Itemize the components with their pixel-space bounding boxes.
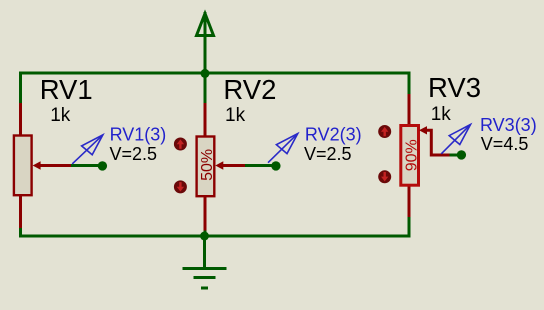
- svg-text:RV2: RV2: [223, 74, 276, 105]
- ground: [183, 236, 227, 288]
- svg-text:RV2(3): RV2(3): [305, 125, 362, 145]
- svg-text:50%: 50%: [199, 149, 216, 181]
- svg-text:V=2.5: V=2.5: [304, 144, 352, 164]
- svg-text:RV3(3): RV3(3): [480, 115, 537, 135]
- node RV2 wiper dot: [271, 161, 280, 170]
- wire RV1 wiper: [71, 164, 102, 167]
- node junction bottom: [200, 232, 209, 241]
- wire left vertical top: [19, 72, 22, 105]
- svg-text:V=4.5: V=4.5: [481, 134, 529, 154]
- potentiometer RV3 (selected): [401, 94, 451, 217]
- svg-text:90%: 90%: [404, 139, 421, 171]
- potentiometer RV1: [14, 103, 73, 228]
- probe RV2(3): [268, 134, 298, 163]
- svg-text:1k: 1k: [225, 105, 246, 126]
- node junction top: [201, 69, 210, 78]
- probe RV3(3): [441, 125, 470, 154]
- button RV2 up: [174, 138, 187, 151]
- wire right vertical bottom: [408, 216, 411, 238]
- power symbol VCC: [197, 12, 214, 36]
- wire mid vertical bottom: [204, 230, 207, 238]
- svg-text:RV1(3): RV1(3): [110, 125, 167, 145]
- button RV3 down: [378, 170, 391, 183]
- wire RV3 wiper: [450, 154, 462, 157]
- svg-text:1k: 1k: [431, 104, 452, 125]
- node RV3 wiper dot: [457, 150, 466, 159]
- wire right vertical top: [408, 72, 411, 96]
- node RV1 wiper dot: [98, 161, 107, 170]
- probe RV1(3): [72, 135, 103, 164]
- wire bottom rail: [19, 235, 411, 238]
- wire top rail: [19, 72, 411, 75]
- wire left vertical bottom: [19, 227, 22, 238]
- button RV2 down: [174, 180, 187, 193]
- wire mid vertical top: [204, 36, 207, 105]
- svg-text:1k: 1k: [50, 105, 71, 126]
- svg-text:V=2.5: V=2.5: [110, 144, 158, 164]
- potentiometer RV2: [197, 103, 247, 231]
- button RV3 up: [378, 125, 391, 138]
- svg-text:RV1: RV1: [40, 74, 93, 105]
- svg-text:RV3: RV3: [428, 72, 481, 103]
- wire RV2 wiper: [245, 164, 276, 167]
